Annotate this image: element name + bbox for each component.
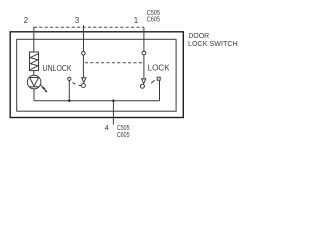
svg-text:1: 1 [134,16,139,25]
svg-text:C605: C605 [117,130,130,139]
svg-text:UNLOCK: UNLOCK [43,64,72,73]
svg-text:4: 4 [105,123,109,132]
svg-text:3: 3 [75,16,80,25]
svg-text:2: 2 [24,16,29,25]
svg-text:C605: C605 [147,15,160,24]
svg-text:LOCK SWITCH: LOCK SWITCH [188,39,238,48]
svg-text:LOCK: LOCK [148,63,171,72]
